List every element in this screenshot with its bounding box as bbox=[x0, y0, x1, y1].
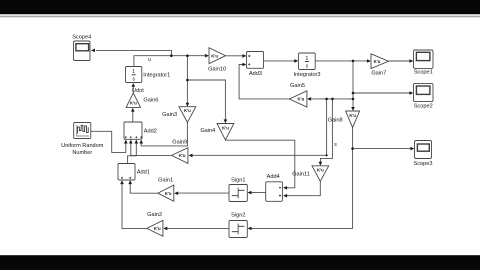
wire Integrator3 out to Gain7 bbox=[315, 60, 367, 62]
gain Gain1 (flipped) bbox=[158, 185, 174, 201]
wire branch to Scope2 bbox=[353, 92, 410, 94]
adder Add3 bbox=[247, 52, 264, 69]
svg-text:Scope3: Scope3 bbox=[414, 161, 433, 167]
wire Sign1 out to Gain1 bbox=[178, 192, 229, 194]
gain Gain11 (down) bbox=[312, 166, 329, 182]
gain Gain6 (up) bbox=[126, 93, 140, 108]
svg-text:Scope2: Scope2 bbox=[414, 103, 433, 109]
svg-text:K'u: K'u bbox=[374, 59, 381, 64]
arrowhead into Scope3 bbox=[410, 147, 414, 151]
scope3 bbox=[415, 141, 432, 159]
junction dot u-line gain3 branch bbox=[186, 54, 189, 57]
svg-text:Gain2: Gain2 bbox=[147, 212, 162, 218]
wire Add3 out to Integrator3 bbox=[264, 60, 295, 62]
adder Add1 bbox=[118, 164, 135, 181]
arrowhead into Gain11 top bbox=[319, 162, 323, 166]
wire branch to Scope4 bbox=[96, 50, 171, 55]
svg-text:Gain3: Gain3 bbox=[162, 112, 177, 118]
adder Add2 bbox=[124, 122, 142, 139]
integrator3 bbox=[299, 53, 316, 70]
arrowhead into Add4 lower input bbox=[283, 194, 287, 198]
junction dot scope2 branch bbox=[352, 92, 355, 95]
arrowhead into Gain5 bbox=[307, 97, 311, 101]
svg-text:Scope4: Scope4 bbox=[72, 35, 91, 41]
wire Sign2 out to Gain2 bbox=[167, 227, 229, 229]
wire V2 down to Gain11 bbox=[320, 99, 332, 162]
letterbox bottom bar bbox=[0, 255, 480, 270]
wire Gain4 out to Add4 upper input bbox=[225, 140, 294, 188]
arrowhead into Gain9 bbox=[189, 154, 193, 158]
svg-text:s: s bbox=[334, 142, 337, 148]
svg-text:Scope1: Scope1 bbox=[414, 69, 433, 75]
arrowhead into Add2 input4 bbox=[139, 140, 143, 144]
arrowhead into Sign2 bbox=[248, 227, 252, 231]
svg-text:Add2: Add2 bbox=[144, 128, 157, 134]
svg-text:K'u: K'u bbox=[130, 101, 137, 106]
arrowhead into Integrator3 bbox=[294, 59, 298, 63]
wire Add4 out to Sign1 bbox=[251, 192, 265, 194]
svg-text:Sign1: Sign1 bbox=[231, 178, 245, 184]
junction dot V1 tap bbox=[325, 98, 328, 101]
wire branch to Gain4 bbox=[187, 80, 225, 120]
wire Gain11 out to Add4 lower input bbox=[287, 181, 320, 195]
arrowhead into Add2 input2 bbox=[129, 140, 133, 144]
wire Gain10 out to Add3 bbox=[226, 55, 243, 57]
gain Gain4 (down) bbox=[217, 124, 234, 140]
wire Integrator1 out to Gain10 bbox=[134, 56, 205, 67]
gain Gain3 (down) bbox=[179, 107, 196, 123]
wire Add1 out to Add2 input3 bbox=[128, 143, 137, 163]
junction dot gain5 branch bbox=[352, 98, 355, 101]
corner dot V1 elbow bbox=[326, 154, 328, 156]
junction dot integrator3 out bbox=[352, 60, 355, 63]
wire branch down to Gain3 bbox=[186, 56, 188, 103]
wire V1 down to Gain9 bbox=[193, 99, 327, 155]
arrowhead into Add2 input3 bbox=[135, 140, 139, 144]
svg-text:Gain8: Gain8 bbox=[328, 118, 343, 124]
scope1 bbox=[414, 50, 434, 68]
junction dot gain4 branch bbox=[186, 79, 189, 82]
svg-text:Add3: Add3 bbox=[249, 71, 262, 77]
wire Gain9 out to Add2 input2 bbox=[131, 143, 172, 155]
wire Gain3 out to Add2 input4 bbox=[141, 122, 187, 145]
arrowhead into Add1 right input bbox=[128, 180, 132, 184]
wire Gain7 out to Scope1 bbox=[389, 60, 410, 62]
junction dot u-line scope4 branch bbox=[170, 54, 173, 57]
svg-text:1: 1 bbox=[132, 69, 135, 75]
wire branch left to Gain5 bbox=[311, 98, 353, 100]
gain Gain5 (flipped) bbox=[289, 91, 307, 107]
svg-text:K'u: K'u bbox=[184, 108, 191, 113]
svg-text:K'u: K'u bbox=[154, 226, 161, 231]
wire Gain5 out to Add3 lower input bbox=[239, 65, 289, 99]
wire vertical x353 down to Gain8 bbox=[352, 61, 354, 108]
junction dot V2 tap bbox=[331, 98, 334, 101]
arrowhead into Gain1 bbox=[174, 191, 178, 195]
gain Gain7 bbox=[371, 54, 389, 69]
svg-text:Add1: Add1 bbox=[137, 170, 150, 176]
svg-text:u: u bbox=[148, 57, 151, 63]
svg-text:K'u: K'u bbox=[222, 125, 229, 130]
wire branch to Scope3 bbox=[353, 148, 411, 150]
adder Add4 bbox=[266, 182, 283, 202]
svg-text:Gain11: Gain11 bbox=[292, 171, 310, 177]
scope2 bbox=[414, 83, 434, 101]
svg-text:1: 1 bbox=[306, 56, 309, 62]
svg-text:Gain9: Gain9 bbox=[172, 139, 187, 145]
letterbox top bar bbox=[0, 0, 480, 14]
svg-text:Uniform Random: Uniform Random bbox=[61, 143, 104, 149]
svg-text:Integrator3: Integrator3 bbox=[293, 72, 320, 78]
svg-text:K'u: K'u bbox=[165, 191, 172, 196]
integrator1 (rotated, 1/s) bbox=[126, 67, 142, 83]
arrowhead into Add3 input1 bbox=[242, 54, 246, 58]
arrowhead into Add1 left input bbox=[120, 180, 124, 184]
gain Gain9 (flipped) bbox=[172, 148, 188, 164]
arrowhead into Add4 upper input bbox=[283, 186, 287, 190]
wire Gain6 out to Integrator1 bbox=[132, 87, 134, 93]
wire Add2 out to Gain6 bbox=[132, 112, 134, 122]
wire Gain8 out down and left to Sign2 bbox=[251, 128, 352, 229]
uniform random number source bbox=[74, 123, 91, 139]
svg-text:Gain5: Gain5 bbox=[290, 83, 305, 89]
arrowhead into Gain6 bottom bbox=[131, 108, 135, 112]
junction dot scope3 branch bbox=[351, 147, 354, 150]
svg-text:Gain6: Gain6 bbox=[143, 97, 158, 103]
gain Gain2 (flipped) bbox=[147, 220, 163, 236]
arrowhead into Scope4 bbox=[91, 49, 95, 53]
arrowhead into Integrator1 bottom bbox=[132, 83, 136, 87]
wire Gain1 out to Add1 right input bbox=[130, 181, 158, 193]
scope4 bbox=[74, 41, 91, 61]
arrowhead into Gain7 bbox=[367, 59, 371, 63]
arrowhead into Scope2 bbox=[409, 91, 413, 95]
svg-text:Number: Number bbox=[72, 150, 92, 156]
svg-text:Gain4: Gain4 bbox=[200, 128, 215, 134]
arrowhead into Gain2 bbox=[163, 227, 167, 231]
arrowhead into Gain8 top bbox=[351, 107, 355, 111]
sign block Sign1 (flipped) bbox=[229, 185, 247, 202]
arrowhead into Sign1 bbox=[248, 191, 252, 195]
svg-text:K'u: K'u bbox=[349, 113, 356, 118]
svg-text:Gain7: Gain7 bbox=[371, 71, 386, 77]
svg-text:K'u: K'u bbox=[298, 97, 305, 102]
arrowhead into Add3 input2 bbox=[242, 63, 246, 67]
wire Uniform Random Number out to Add2 input1 bbox=[91, 131, 126, 152]
arrowhead into Add2 input1 bbox=[124, 140, 128, 144]
gain Gain8 (down) bbox=[346, 111, 360, 128]
arrowhead into Scope1 bbox=[409, 59, 413, 63]
svg-text:Sign2: Sign2 bbox=[231, 213, 245, 219]
svg-text:K'u: K'u bbox=[179, 153, 186, 158]
gain Gain10 bbox=[209, 48, 226, 64]
svg-text:Add4: Add4 bbox=[267, 174, 280, 180]
svg-text:K'u: K'u bbox=[317, 168, 324, 173]
svg-text:Gain1: Gain1 bbox=[158, 178, 173, 184]
svg-text:Integrator1: Integrator1 bbox=[143, 72, 170, 78]
svg-text:K'u: K'u bbox=[211, 54, 218, 59]
arrowhead into Gain3 top bbox=[186, 103, 190, 107]
sign block Sign2 (flipped) bbox=[229, 221, 247, 238]
arrowhead into Gain4 top bbox=[224, 119, 228, 123]
arrowhead into Gain10 bbox=[205, 54, 209, 58]
svg-text:Gain10: Gain10 bbox=[208, 66, 226, 72]
wire Gain2 out to Add1 left input bbox=[122, 181, 147, 229]
